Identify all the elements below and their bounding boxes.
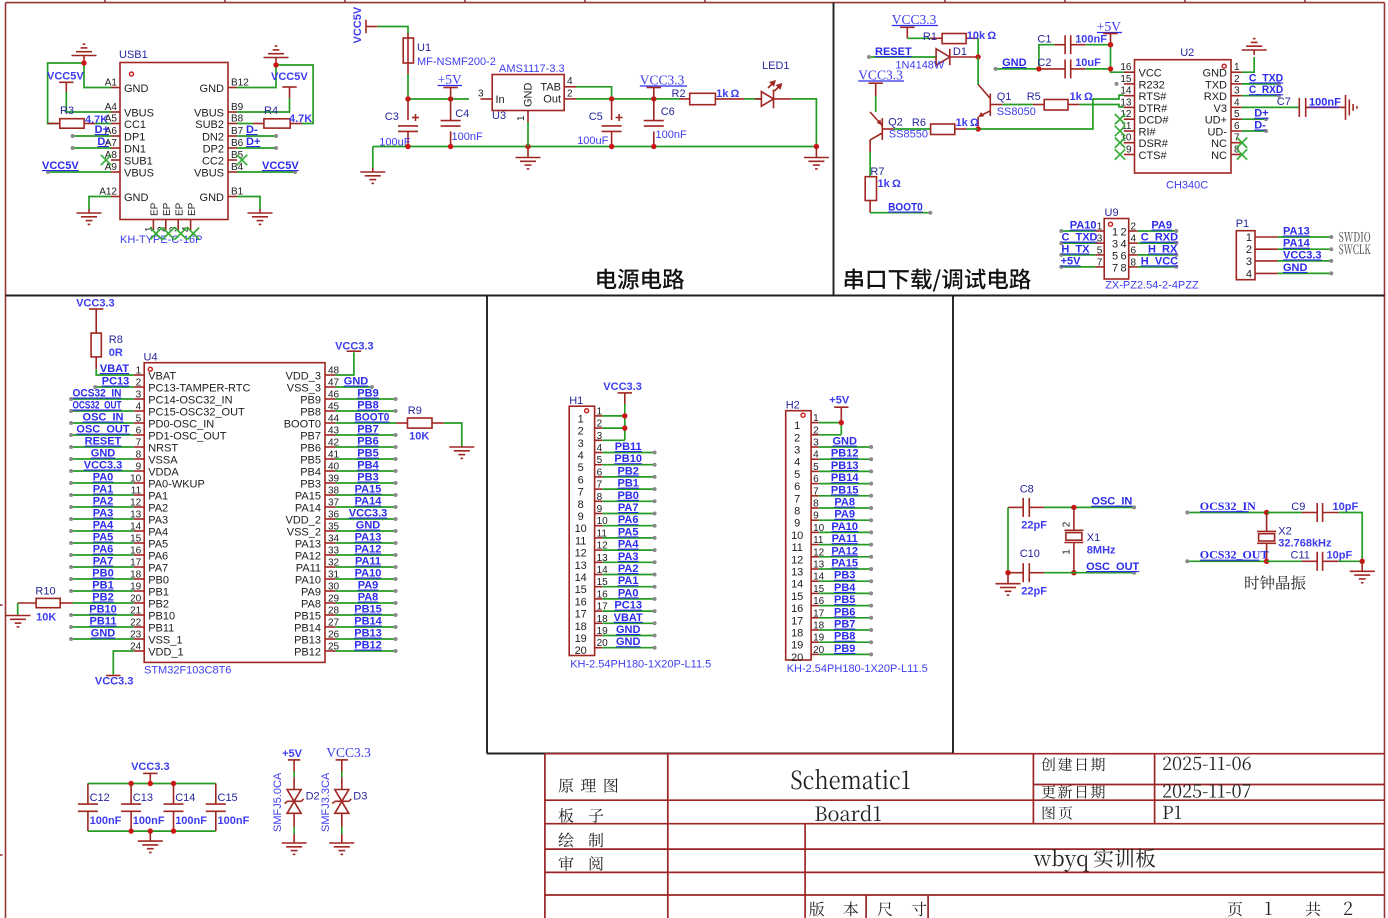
wire [966,128,978,130]
svg-text:PA13: PA13 [355,532,382,544]
P1 pin numbers [1246,232,1252,280]
wire [1242,57,1255,72]
net PB3 [819,570,873,584]
svg-text:R2: R2 [672,88,686,100]
crystal X1 [1064,507,1083,572]
svg-text:VBUS: VBUS [124,168,154,180]
svg-text:PA4: PA4 [148,527,168,539]
D2 part number SMFJ5.0CA [272,772,284,832]
svg-text:+5V: +5V [1061,255,1082,267]
svg-text:8: 8 [794,506,800,518]
ground [282,842,307,855]
wire [602,416,625,440]
svg-text:X2: X2 [1278,526,1291,538]
svg-text:VCC3.3: VCC3.3 [95,676,134,688]
wire [1242,106,1300,108]
svg-text:R6: R6 [912,117,926,129]
svg-text:VDD_2: VDD_2 [286,515,321,527]
wire [89,197,111,210]
svg-text:RESET: RESET [85,436,122,448]
svg-text:8MHz: 8MHz [1087,544,1116,556]
junction [1036,66,1041,71]
C1 value [1075,34,1107,46]
svg-text:GND: GND [91,628,116,640]
wire [237,65,276,88]
svg-text:12: 12 [791,554,803,566]
svg-text:STM32F103C8T6: STM32F103C8T6 [144,665,231,677]
svg-text:PA0: PA0 [618,587,639,599]
svg-text:8: 8 [1121,262,1127,274]
net VBAT [602,612,656,626]
junction [81,60,86,65]
svg-text:OCS32_IN: OCS32_IN [73,388,122,400]
svg-text:VCC5V: VCC5V [42,160,79,172]
R5 designator [1027,91,1041,103]
net PB6 [335,436,397,450]
R9 value [409,430,429,442]
text SWDIO [1339,232,1370,242]
svg-text:PA11: PA11 [832,533,858,545]
svg-text:15: 15 [575,584,587,596]
svg-text:9: 9 [136,462,142,473]
net PB0 [69,568,134,582]
svg-text:10: 10 [575,523,587,535]
svg-text:7: 7 [813,486,819,497]
resistor R6 [931,124,967,135]
svg-text:P1: P1 [1236,218,1249,230]
svg-text:R5: R5 [1027,91,1041,103]
transistor Q2 SS8550 [870,112,894,152]
svg-text:VSS_2: VSS_2 [287,527,321,539]
svg-text:4: 4 [1121,239,1127,251]
svg-text:PA9: PA9 [1151,220,1172,232]
ground [72,44,97,60]
svg-text:GND: GND [523,83,535,108]
fuse U1 [403,33,413,74]
ground [329,842,354,855]
net PB12 [335,640,397,654]
svg-text:PB9: PB9 [300,395,321,407]
net PB13 [819,460,873,474]
svg-text:20: 20 [575,645,587,657]
H1 designator [569,395,583,407]
connector H1 [569,406,602,655]
svg-text:3: 3 [597,431,603,442]
svg-text:Q2: Q2 [888,117,903,129]
svg-text:PA2: PA2 [148,503,168,515]
IC U2 CH340C [1124,60,1242,173]
U2 designator [1180,47,1194,59]
wire [977,57,979,85]
svg-text:C6: C6 [661,106,675,118]
svg-text:PA6: PA6 [93,544,114,556]
svg-text:C4: C4 [455,108,469,120]
C7 value [1309,96,1341,108]
net C_RXD [1138,232,1179,246]
svg-text:PA7: PA7 [618,502,639,514]
svg-text:7: 7 [578,487,584,499]
svg-text:PA2: PA2 [93,496,114,508]
net PA7 [69,556,134,570]
capacitor C4 [441,99,461,147]
svg-text:6: 6 [1131,245,1137,256]
net GND [1278,262,1334,276]
svg-text:2: 2 [1062,521,1073,527]
U1 part number MF-NSMF200-2 [417,56,496,68]
svg-text:PA6: PA6 [618,514,639,526]
wire [1044,572,1074,574]
svg-text:100nF: 100nF [1309,96,1341,108]
net OCS32_IN [69,388,134,402]
svg-text:PC15-OSC32_OUT: PC15-OSC32_OUT [148,407,245,419]
junction [1360,559,1365,564]
svg-text:TXD: TXD [1205,79,1227,91]
net PB4 [819,582,873,596]
wire [407,74,409,99]
net PB14 [819,472,873,486]
net C_RXD [1242,84,1284,98]
R1 value [967,30,997,42]
svg-text:1: 1 [1112,227,1118,239]
svg-text:7: 7 [794,493,800,505]
svg-text:Out: Out [543,94,561,106]
svg-text:PB5: PB5 [357,448,378,460]
net D+ [71,124,111,138]
svg-text:PA0-WKUP: PA0-WKUP [148,479,205,491]
R6 value [956,117,979,129]
svg-text:6: 6 [136,426,142,437]
svg-text:PB9: PB9 [357,388,378,400]
power flag +5V [438,72,462,99]
power flag VCC3.3 [640,73,687,99]
svg-text:U3: U3 [492,110,506,122]
svg-text:PA10: PA10 [831,521,858,533]
USB1 designator [119,49,148,61]
svg-text:2: 2 [1234,74,1240,85]
net H_TX [1059,243,1095,257]
junction [651,96,656,101]
svg-text:13: 13 [575,560,587,572]
svg-text:1k Ω: 1k Ω [956,117,979,129]
svg-text:GND: GND [616,624,641,636]
svg-text:4: 4 [1246,268,1252,280]
wire ground rail [373,146,817,148]
svg-text:DTR#: DTR# [1139,103,1169,115]
R1 designator [923,31,937,43]
svg-text:GND: GND [200,83,225,95]
svg-text:U1: U1 [417,42,431,54]
wire [791,99,816,147]
connector P1 [1236,231,1278,280]
capacitor C8 [1008,498,1044,517]
svg-text:PC13: PC13 [614,600,642,612]
svg-text:GND: GND [616,636,641,648]
transistor Q1 SS8050 [978,85,1002,127]
svg-text:SMFJ5.0CA: SMFJ5.0CA [272,772,284,832]
svg-text:H_VCC: H_VCC [1141,255,1178,267]
connector U9 [1095,219,1138,280]
svg-text:C_TXD: C_TXD [1249,72,1283,84]
svg-text:X1: X1 [1087,532,1100,544]
svg-text:PB3: PB3 [834,570,855,582]
H2 part number [787,663,928,675]
svg-text:PB12: PB12 [354,640,382,652]
section title 电源电路 [597,268,684,289]
svg-text:22pF: 22pF [1021,519,1047,531]
wire [95,123,111,125]
svg-text:PB1: PB1 [617,478,638,490]
junction [1071,505,1076,510]
svg-text:10: 10 [791,530,803,542]
svg-text:PC14-OSC32_IN: PC14-OSC32_IN [148,395,232,407]
svg-text:C10: C10 [1020,548,1040,560]
wire [372,147,374,169]
svg-text:PB6: PB6 [357,436,378,448]
svg-text:PA15: PA15 [355,484,382,496]
svg-text:10pF: 10pF [1333,501,1359,513]
net H_VCC [1138,255,1179,269]
svg-text:PA15: PA15 [295,491,321,503]
net OCS32_OUT [69,400,134,414]
svg-text:PD1-OSC_OUT: PD1-OSC_OUT [148,431,227,443]
svg-text:GND: GND [91,448,116,460]
R10 designator [35,586,55,598]
D1 part number 1N4148W [895,60,945,72]
Q1 part number SS8050 [997,106,1036,118]
junction [273,62,278,67]
svg-text:2: 2 [597,419,603,430]
power flag +5V [829,395,850,423]
svg-text:2: 2 [1246,244,1252,256]
P1 designator [1236,218,1249,230]
net H_RX [1138,243,1179,257]
junction [839,420,844,425]
wire [237,123,253,125]
svg-text:2: 2 [1121,227,1127,239]
svg-text:PB11: PB11 [148,623,174,635]
Q2 part number SS8550 [889,129,928,141]
net PA10 [335,568,397,582]
svg-text:VCC3.3: VCC3.3 [76,298,115,310]
svg-text:PA1: PA1 [93,484,114,496]
svg-text:9: 9 [597,504,603,515]
net D- [1242,120,1268,134]
wire [237,98,290,112]
svg-text:BOOT0: BOOT0 [284,419,321,431]
svg-text:OSC_IN: OSC_IN [83,412,124,424]
ground [1350,561,1375,582]
svg-text:PB2: PB2 [617,465,638,477]
wire [576,98,680,100]
svg-text:DP2: DP2 [203,144,224,156]
svg-text:PC13-TAMPER-RTC: PC13-TAMPER-RTC [148,383,250,395]
wire [88,830,216,832]
junction [975,54,980,59]
svg-text:R9: R9 [408,405,422,417]
U9 designator [1105,207,1119,219]
svg-text:17: 17 [575,609,587,621]
svg-text:5: 5 [578,462,584,474]
net PA1 [602,575,656,589]
svg-text:PB4: PB4 [357,460,379,472]
C6 designator [661,106,675,118]
svg-text:1k Ω: 1k Ω [878,178,901,190]
svg-text:H2: H2 [786,400,800,412]
power flag VCC3.3 [603,381,642,416]
net VCC5V [237,160,299,174]
svg-text:OSC_OUT: OSC_OUT [76,424,129,436]
net PA4 [69,520,134,534]
svg-text:VCC3.3: VCC3.3 [603,381,642,393]
svg-text:UD+: UD+ [1205,115,1227,127]
ground [248,209,273,224]
text 2025-11-06 [1163,757,1251,771]
svg-text:14: 14 [575,572,587,584]
svg-text:3: 3 [1097,234,1103,245]
svg-text:4: 4 [1234,97,1240,108]
H2 designator [786,400,800,412]
capacitor C10 [1008,563,1044,582]
junction [1264,559,1269,564]
net PA5 [69,532,134,546]
svg-text:6: 6 [578,474,584,486]
C10 designator [1020,548,1040,560]
net PB10 [69,604,134,618]
svg-text:22pF: 22pF [1021,586,1047,598]
label 页 1 共 2 [1228,902,1353,917]
junction [1005,570,1076,575]
svg-text:D+: D+ [246,136,260,148]
net PA8 [335,592,397,606]
svg-text:PA14: PA14 [355,496,383,508]
C4 designator [455,108,469,120]
svg-text:MF-NSMF200-2: MF-NSMF200-2 [417,56,496,68]
crystal X2 [1257,513,1276,562]
svg-text:1: 1 [1234,62,1240,73]
R4 designator [264,105,278,117]
net PB2 [602,465,656,479]
svg-text:PB14: PB14 [354,616,382,628]
svg-text:C_RXD: C_RXD [1141,232,1178,244]
net OCS32_OUT [1185,548,1268,564]
net VCC3.3 [1278,249,1334,263]
net PA11 [819,533,873,547]
svg-text:RI#: RI# [1139,127,1157,139]
wire [73,602,134,604]
svg-text:CH340C: CH340C [1166,180,1208,192]
wire [819,423,842,435]
R8 designator [109,334,123,346]
capacitor C12 [78,784,98,832]
USB1 part number KH-TYPE-C-16P [120,234,203,246]
svg-text:GND: GND [1002,57,1027,69]
svg-text:PA15: PA15 [831,558,858,570]
svg-text:2: 2 [794,432,800,444]
svg-text:PA5: PA5 [148,539,168,551]
svg-text:PB15: PB15 [354,604,382,616]
svg-text:+5V: +5V [1097,19,1121,34]
svg-text:3: 3 [578,438,584,450]
svg-text:VSSA: VSSA [148,455,178,467]
svg-text:OSC_IN: OSC_IN [1091,496,1132,508]
svg-text:C3: C3 [385,111,399,123]
regulator U3 [481,75,577,123]
R5 value [1070,91,1093,103]
svg-text:PA6: PA6 [148,551,168,563]
ground [264,46,289,62]
svg-text:R7: R7 [870,166,884,178]
X1 designator [1087,532,1100,544]
capacitor C15 [206,784,226,832]
wire [527,122,529,147]
svg-text:32.768kHz: 32.768kHz [1278,537,1332,549]
svg-text:CTS#: CTS# [1139,150,1168,162]
resistor R8 [91,320,101,369]
svg-text:VCC5V: VCC5V [271,71,308,83]
C1 designator [1037,34,1051,46]
X2 designator [1278,526,1291,538]
wire [66,92,111,112]
svg-text:1: 1 [794,420,800,432]
svg-text:16: 16 [1120,62,1132,73]
svg-text:8: 8 [1131,257,1137,268]
U3 part number AMS1117-3.3 [499,63,565,75]
capacitor C5 [602,99,623,147]
svg-text:PB11: PB11 [615,441,642,453]
svg-text:19: 19 [575,633,587,645]
wire [907,37,930,39]
wire [977,38,979,57]
U9 inside pin numbers [1112,227,1127,275]
net PA9 [819,509,873,523]
junction [1264,510,1269,515]
svg-text:PB0: PB0 [617,490,638,502]
wire [1111,45,1124,72]
svg-text:5: 5 [597,455,603,466]
svg-text:20: 20 [791,652,803,664]
power flag VCC3.3 [131,761,170,784]
wire [17,603,19,615]
net PB9 [819,643,873,657]
svg-text:PB8: PB8 [357,400,378,412]
net PB1 [602,478,656,492]
svg-text:+5V: +5V [282,748,303,760]
net VCC3.3 [69,460,134,474]
U9 part number ZX-PZ2.54-2-4PZZ [1105,280,1199,292]
net OCS32_IN [1185,499,1266,515]
svg-text:VCC3.3: VCC3.3 [131,761,170,773]
net BOOT0 [335,412,396,424]
svg-text:VBUS: VBUS [194,108,224,120]
C11 designator [1291,550,1310,562]
svg-text:C9: C9 [1291,501,1305,513]
svg-text:C11: C11 [1291,550,1310,562]
wire [444,423,462,446]
C9 value [1333,501,1359,513]
svg-text:OCS32_IN: OCS32_IN [1200,499,1256,513]
power flag VCC3.3 [326,745,371,760]
C5 value [577,135,608,147]
resistor R5 [1033,100,1080,111]
D3 designator [353,791,367,803]
svg-text:12: 12 [1120,109,1132,120]
power flag VCC3.3 [892,12,938,38]
power flag VCC3.3 [335,340,374,352]
svg-text:CC1: CC1 [124,119,146,131]
capacitor C11 [1267,552,1339,571]
U4 designator [144,352,158,364]
svg-text:PA1: PA1 [148,491,168,503]
